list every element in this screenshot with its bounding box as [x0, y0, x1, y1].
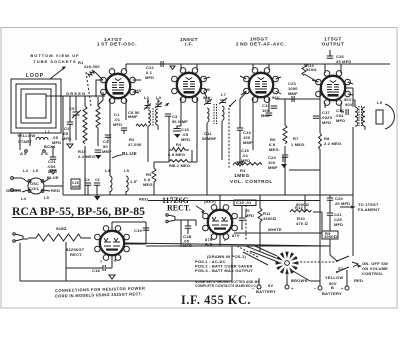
svg-text:(REV): (REV) — [204, 199, 216, 204]
svg-text:L4: L4 — [105, 168, 111, 173]
svg-text:MMF: MMF — [288, 91, 298, 96]
svg-text:MFD: MFD — [322, 120, 331, 125]
svg-text:BROWN: BROWN — [291, 278, 308, 283]
svg-text:2: 2 — [224, 238, 226, 242]
svg-text:L1: L1 — [45, 129, 51, 134]
svg-text:L4: L4 — [23, 168, 29, 173]
svg-text:MEG.: MEG. — [269, 147, 280, 152]
svg-text:20: 20 — [335, 201, 340, 206]
svg-text:FILAMENT: FILAMENT — [358, 207, 380, 212]
svg-text:1 ST DET-OSC.: 1 ST DET-OSC. — [97, 42, 137, 48]
svg-text:MEG.: MEG. — [143, 182, 154, 187]
svg-text:COIL: COIL — [29, 186, 40, 191]
svg-text:A.C.: A.C. — [205, 242, 214, 247]
svg-text:MFD.: MFD. — [62, 136, 73, 141]
svg-text:I.F. 455 KC.: I.F. 455 KC. — [181, 293, 251, 307]
svg-text:25 MFD: 25 MFD — [336, 59, 351, 64]
svg-text:470 Ω: 470 Ω — [296, 221, 308, 226]
svg-text:9M: 9M — [204, 87, 210, 92]
svg-text:BOTTOM VIEW OF: BOTTOM VIEW OF — [30, 53, 79, 58]
svg-text:RECT.: RECT. — [70, 252, 83, 257]
svg-text:2.2 MEG.: 2.2 MEG. — [78, 154, 97, 159]
svg-text:VOL. CONTROL: VOL. CONTROL — [230, 179, 273, 185]
svg-text:MMF: MMF — [243, 140, 253, 145]
svg-text:C19: C19 — [134, 228, 143, 233]
svg-text:5: 5 — [114, 259, 116, 263]
svg-text:WHITE: WHITE — [268, 227, 282, 232]
svg-text:6.8 MEG: 6.8 MEG — [168, 152, 185, 157]
svg-text:R4: R4 — [176, 142, 182, 147]
svg-text:96V: 96V — [272, 95, 280, 100]
svg-text:TUBE SOCKETS: TUBE SOCKETS — [33, 59, 76, 64]
svg-text:MMF: MMF — [268, 165, 278, 170]
svg-text:560Ω: 560Ω — [306, 67, 317, 72]
svg-text:L4: L4 — [21, 196, 27, 201]
svg-text:2 ND DET-AF-AVC.: 2 ND DET-AF-AVC. — [236, 42, 286, 48]
svg-text:MFD: MFD — [341, 201, 350, 206]
svg-text:C19 .01: C19 .01 — [236, 200, 252, 205]
svg-text:5000Ω: 5000Ω — [296, 202, 309, 207]
svg-text:MMF: MMF — [72, 185, 80, 189]
svg-text:R7: R7 — [293, 136, 299, 141]
svg-text:LOOP: LOOP — [26, 73, 44, 79]
svg-text:CONTROL: CONTROL — [362, 271, 384, 276]
svg-text:3300Ω: 3300Ω — [263, 216, 276, 221]
svg-text:1.5°: 1.5° — [130, 179, 138, 184]
svg-text:47,000: 47,000 — [128, 142, 142, 147]
svg-text:RED: RED — [139, 197, 148, 202]
svg-text:1MEG: 1MEG — [234, 173, 250, 179]
svg-text:BATTERY: BATTERY — [256, 289, 276, 294]
svg-text:MMF: MMF — [102, 149, 112, 154]
svg-text:L9: L9 — [377, 100, 383, 105]
svg-text:C18: C18 — [92, 268, 101, 273]
svg-text:56MMF: 56MMF — [202, 136, 217, 141]
svg-text:L5: L5 — [44, 195, 50, 200]
svg-text:L5: L5 — [124, 168, 130, 173]
svg-text:MMF: MMF — [128, 114, 138, 119]
svg-text:BCX4: BCX4 — [44, 144, 56, 149]
svg-text:90V: 90V — [203, 95, 211, 100]
svg-text:56 MMF: 56 MMF — [172, 119, 188, 124]
svg-text:MMF: MMF — [261, 113, 271, 118]
svg-text:C5: C5 — [95, 178, 100, 182]
svg-text:MFD: MFD — [334, 222, 343, 227]
svg-text:MFD: MFD — [145, 75, 154, 80]
svg-text:6V: 6V — [268, 283, 273, 288]
svg-text:RED: RED — [354, 278, 363, 283]
svg-text:A 6: A 6 — [20, 151, 27, 156]
svg-text:COMPLETE CONTACTS MARKED ♯ C: COMPLETE CONTACTS MARKED ♯ C — [195, 284, 256, 288]
svg-text:BATTERY: BATTERY — [322, 291, 342, 296]
svg-text:YELLOW: YELLOW — [325, 275, 343, 280]
svg-text:MFD: MFD — [336, 118, 345, 123]
svg-text:1 MEG.: 1 MEG. — [291, 142, 306, 147]
svg-text:POS.3 - BATT MAX OUTPUT: POS.3 - BATT MAX OUTPUT — [195, 268, 253, 273]
svg-text:RCA BP-55, BP-56, BP-85: RCA BP-55, BP-56, BP-85 — [12, 205, 145, 218]
svg-text:3: 3 — [230, 217, 232, 221]
svg-text:OUTPUT: OUTPUT — [321, 42, 344, 48]
svg-text:90V: 90V — [345, 102, 353, 107]
svg-text:R3: R3 — [240, 168, 246, 173]
svg-text:2.2 MEG.: 2.2 MEG. — [173, 163, 192, 168]
svg-text:L7: L7 — [221, 92, 227, 97]
svg-text:B: B — [331, 285, 334, 290]
svg-text:C4: C4 — [85, 178, 90, 182]
svg-text:MFD: MFD — [113, 122, 122, 127]
svg-text:545Ω: 545Ω — [56, 226, 67, 231]
svg-text:BLUE: BLUE — [122, 151, 138, 157]
svg-text:L5: L5 — [33, 168, 39, 173]
svg-text:GREEN: GREEN — [66, 91, 86, 96]
svg-text:MFD.: MFD. — [181, 137, 192, 142]
svg-text:87V: 87V — [232, 233, 240, 238]
svg-text:220,000: 220,000 — [84, 64, 100, 69]
svg-text:7: 7 — [100, 260, 102, 264]
svg-text:S2: S2 — [338, 266, 344, 271]
svg-text:RED: RED — [51, 188, 60, 193]
svg-text:1000Ω: 1000Ω — [324, 234, 337, 239]
svg-text:6 G: 6 G — [41, 151, 48, 156]
svg-text:I.F.: I.F. — [185, 42, 194, 48]
svg-text:RECT.: RECT. — [167, 204, 191, 213]
svg-text:98V: 98V — [134, 88, 142, 93]
svg-text:2.2 MEG.: 2.2 MEG. — [324, 141, 343, 146]
